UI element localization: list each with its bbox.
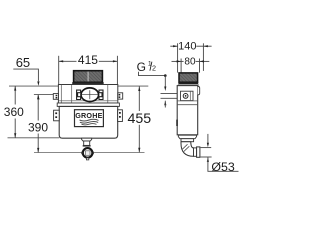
access shaft box (front) (74, 71, 103, 83)
svg-text:Ø53: Ø53 (211, 160, 235, 174)
elbow (181, 142, 194, 157)
outlet neck (84, 141, 90, 145)
left outer tab (53, 94, 58, 100)
flush valve ellipse (81, 88, 99, 102)
wire: tank-bottom extension line (8, 137, 60, 139)
right outer tab (118, 93, 123, 99)
dimension 65 leader (13, 69, 38, 81)
outlet ball joint (83, 148, 93, 158)
dimension 360 line (14, 86, 16, 104)
wire: floor reference line (34, 152, 145, 154)
GROHE waves (80, 119, 99, 121)
svg-text:455: 455 (128, 111, 152, 127)
inlet slot lines (161, 93, 178, 95)
dimension 80 line (172, 60, 184, 62)
side flange strip (178, 84, 198, 85)
svg-text:140: 140 (178, 40, 196, 52)
side bottom flange (178, 135, 196, 139)
dimension 390 line (37, 95, 39, 121)
tank body (front) (59, 106, 117, 138)
dimension d53 line (207, 134, 209, 143)
dimension 415 line (59, 60, 77, 62)
dimension d53 extension lines (201, 147, 212, 149)
outlet fitting flange (front) (82, 138, 92, 141)
G 1/2 leader (139, 72, 166, 76)
dimension 140 line (170, 45, 177, 47)
wire: valve centerline B (34, 94, 118, 96)
left clamp (77, 90, 81, 99)
svg-text:65: 65 (16, 55, 30, 70)
shaft flange (73, 82, 104, 84)
flush bend bump (198, 87, 200, 95)
side left bracket blob (176, 120, 178, 126)
inlet circle (183, 94, 188, 99)
dimension 455 line (138, 87, 140, 112)
left wall bracket (54, 110, 60, 121)
seam band (57, 103, 119, 106)
svg-text:80: 80 (184, 56, 196, 67)
80 extension lines (180, 59, 182, 73)
valve frame section (front) (58, 85, 117, 104)
outlet pipe (194, 148, 197, 156)
right wall bracket (118, 110, 123, 122)
inlet housing (181, 91, 194, 100)
svg-text:2: 2 (152, 64, 156, 73)
wire: tank-top extension line A (9, 85, 148, 87)
side seam lines (177, 100, 198, 102)
svg-text:GROHE: GROHE (75, 111, 102, 120)
coupling ring (197, 147, 200, 157)
415 extension lines (58, 56, 60, 86)
svg-text:415: 415 (78, 53, 98, 67)
svg-text:G: G (137, 60, 146, 74)
svg-text:390: 390 (28, 120, 48, 134)
dimension 80 label (184, 56, 196, 65)
140 extension lines (177, 43, 179, 72)
GROHE logo box (75, 110, 104, 127)
side hatch band (179, 73, 198, 82)
side collar (181, 139, 194, 142)
svg-text:360: 360 (4, 105, 24, 119)
right clamp (99, 90, 103, 99)
side body (177, 86, 198, 135)
